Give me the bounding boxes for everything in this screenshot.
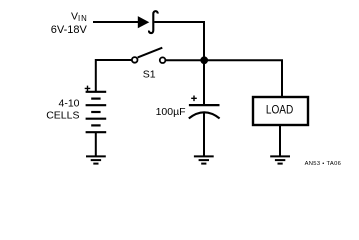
battery B1 plate long 1	[86, 91, 107, 93]
wire load to ground	[279, 125, 281, 156]
ground (load)	[270, 156, 290, 163]
load box	[253, 97, 308, 125]
switch S1 blade	[138, 48, 163, 58]
svg-text:CELLS: CELLS	[46, 109, 79, 121]
capacitor C1 top plate	[189, 104, 220, 106]
battery B1 plate short 3	[91, 124, 100, 126]
wire capacitor to ground	[203, 112, 205, 156]
label VIN	[51, 10, 88, 36]
switch S1 right contact	[160, 57, 166, 63]
svg-text:LOAD: LOAD	[266, 104, 293, 116]
wire diode cathode to top-right corner and down to junction	[154, 22, 204, 60]
wire battery bottom to ground	[95, 132, 97, 156]
svg-text:6V-18V: 6V-18V	[51, 24, 88, 36]
wire switch right to load corner (bus)	[166, 60, 282, 97]
svg-text:100µF: 100µF	[156, 106, 186, 118]
battery plus sign	[85, 86, 91, 92]
ground (capacitor)	[194, 156, 214, 163]
svg-text:S1: S1	[143, 69, 156, 81]
battery B1 plate short 1	[91, 97, 100, 99]
capacitor plus sign	[191, 96, 197, 102]
svg-text:V: V	[71, 10, 78, 22]
svg-text:AN53 • TA06: AN53 • TA06	[305, 161, 342, 167]
diode D1 (Schottky) anode triangle	[138, 16, 150, 28]
battery B1 plate short 2	[91, 111, 100, 113]
diode D1 curved cathode bar	[149, 11, 158, 33]
svg-text:IN: IN	[78, 14, 88, 23]
label 4-10 CELLS	[46, 98, 79, 122]
wire VIN to diode anode	[93, 21, 139, 23]
battery B1 plate long 2	[86, 104, 107, 106]
wire battery top to switch S1 left	[96, 60, 132, 92]
battery B1 plate long 3	[86, 118, 107, 120]
wire junction down to capacitor	[203, 60, 205, 104]
battery B1 plate long 4	[86, 131, 107, 133]
node junction dot	[200, 56, 208, 64]
ground (battery)	[86, 156, 106, 163]
svg-text:4-10: 4-10	[58, 98, 79, 110]
switch S1 left contact	[132, 57, 138, 63]
capacitor C1 curved bottom plate	[189, 112, 220, 118]
